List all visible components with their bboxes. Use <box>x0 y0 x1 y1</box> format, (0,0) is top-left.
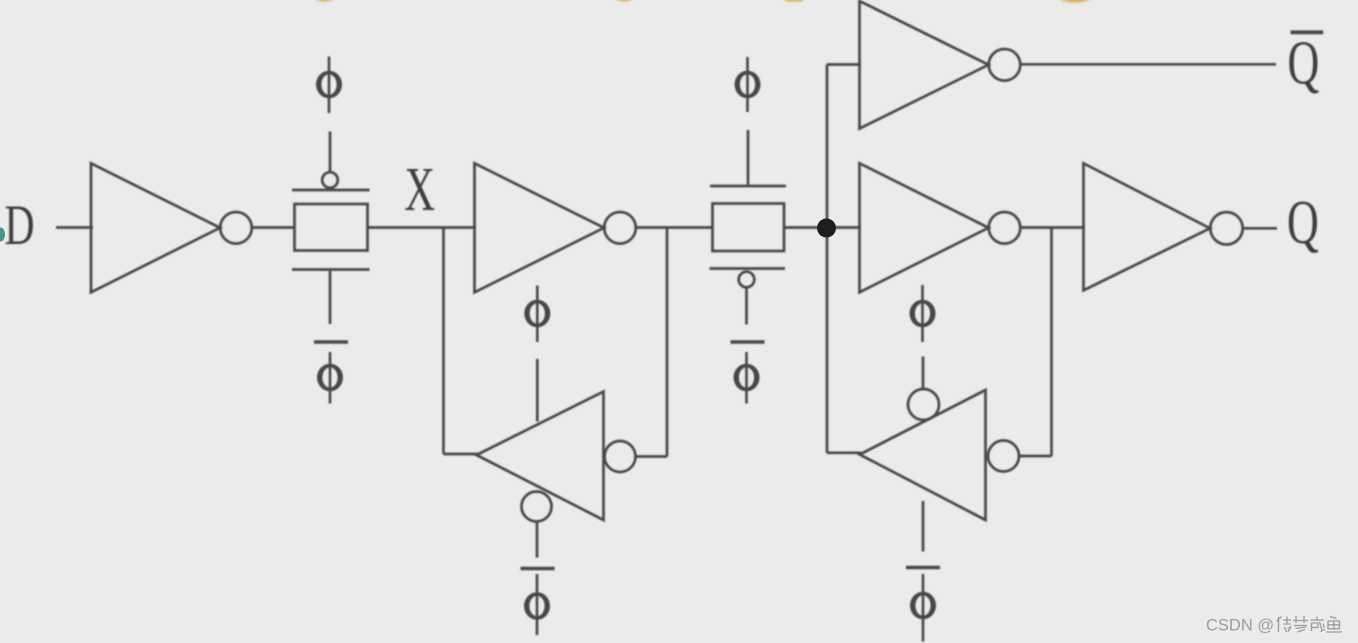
svg-text:D: D <box>5 194 35 257</box>
svg-text:X: X <box>405 154 435 224</box>
svg-text:Q: Q <box>1287 188 1319 257</box>
svg-text:Q: Q <box>1288 28 1320 97</box>
svg-text:CSDN @: CSDN @ <box>1206 617 1274 635</box>
